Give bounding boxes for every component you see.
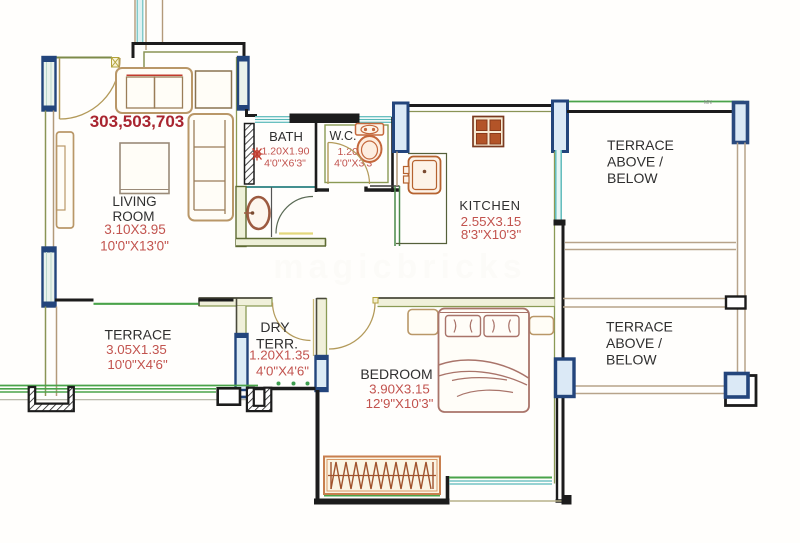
- svg-text:TERRACE: TERRACE: [607, 137, 674, 153]
- footing column south hatched: [247, 388, 271, 411]
- column terrace southeast blue: [726, 374, 749, 398]
- svg-text:LIVING: LIVING: [112, 194, 156, 209]
- text kitchen dims: [461, 214, 522, 242]
- svg-text:303,503,703: 303,503,703: [90, 112, 185, 131]
- pillow east: [484, 316, 519, 337]
- svg-text:magicbricks: magicbricks: [273, 248, 526, 286]
- duct shaft top: [135, 0, 163, 50]
- svg-text:3.05X1.35: 3.05X1.35: [106, 342, 167, 357]
- terrace edge green lines: [0, 386, 258, 393]
- window bedroom south band: [449, 478, 552, 485]
- door threshold bath: [279, 232, 313, 234]
- text living dims: [100, 222, 169, 254]
- plinth line gray: [0, 399, 250, 401]
- svg-text:3.90X3.15: 3.90X3.15: [369, 382, 430, 397]
- door jamb line dry terrace: [313, 299, 315, 356]
- centre table: [120, 143, 169, 194]
- wall kitchen east olive: [554, 152, 556, 484]
- svg-text:1.20X1.90: 1.20X1.90: [262, 146, 310, 158]
- sofa three seat horizontal: [116, 68, 192, 113]
- door jamb main entrance: [112, 58, 120, 68]
- text wc dims: [334, 146, 380, 170]
- text terrace lower: [606, 319, 673, 368]
- window kitchen east teal: [555, 150, 562, 220]
- partition basin line: [271, 187, 273, 237]
- kitchen counter edge: [396, 154, 447, 244]
- wall living east lower band: [236, 187, 246, 247]
- wall bedroom west lower: [316, 390, 320, 503]
- wall corner kitchen southeast: [554, 220, 566, 226]
- wall wc east: [391, 117, 394, 192]
- wall kitchen west green double: [370, 186, 400, 246]
- wall dry terrace east band: [316, 298, 327, 356]
- svg-text:10'0"X4'6": 10'0"X4'6": [107, 357, 168, 372]
- svg-text:1.20X1.35: 1.20X1.35: [249, 348, 310, 363]
- column kitchen north east: [553, 101, 568, 152]
- wall top black (living room north): [133, 44, 244, 59]
- column lines east vertical: [738, 143, 746, 375]
- svg-text:ABOVE /: ABOVE /: [606, 335, 662, 351]
- text bath dims: [262, 146, 310, 170]
- nightstand west: [408, 310, 438, 335]
- wall terrace north black east: [199, 299, 234, 302]
- svg-text:4'0"X6'3": 4'0"X6'3": [264, 158, 306, 170]
- kitchen stove platform: [473, 117, 504, 147]
- terrace upper floor edge double: [565, 243, 736, 250]
- door arc wc: [328, 143, 370, 185]
- wall kitchen west below column: [396, 152, 398, 187]
- blanket fold lines: [439, 360, 529, 396]
- svg-text:12'9"X10'3": 12'9"X10'3": [366, 396, 434, 411]
- svg-text:TERRACE: TERRACE: [105, 327, 172, 343]
- roof green line terrace north: [554, 101, 744, 103]
- svg-text:BATH: BATH: [269, 129, 303, 144]
- wall terrace dry divider band: [236, 298, 247, 334]
- svg-text:MN: MN: [704, 100, 712, 106]
- footing box south middle: [218, 388, 240, 404]
- door arc bath: [276, 197, 313, 234]
- text terrace dims: [106, 342, 168, 372]
- svg-text:3.10X3.95: 3.10X3.95: [104, 222, 166, 237]
- wall bath west hatched: [245, 124, 255, 185]
- wall bath wc north with windows: [247, 109, 392, 123]
- wall bath wc divider: [315, 116, 318, 192]
- column terrace northeast: [734, 103, 748, 143]
- toilet wc: [356, 124, 384, 163]
- svg-text:ABOVE /: ABOVE /: [607, 154, 663, 170]
- beam middle double: [563, 299, 745, 308]
- wall bedroom north band: [378, 298, 555, 307]
- tv cabinet west wall: [57, 132, 74, 228]
- terrace lower floor edge double: [574, 386, 726, 394]
- kitchen sink: [404, 157, 441, 194]
- text DRY TERR: [256, 319, 298, 352]
- svg-text:BELOW: BELOW: [607, 170, 658, 186]
- wall inner olive line north: [144, 52, 238, 70]
- window west wall lower: [43, 248, 56, 307]
- svg-text:BELOW: BELOW: [606, 352, 657, 368]
- window terrace north green: [94, 303, 199, 305]
- pier block south: [562, 495, 572, 505]
- wall terrace upper north black: [567, 110, 734, 113]
- svg-text:4'0"X4'6": 4'0"X4'6": [256, 364, 309, 379]
- wall dry terrace south: [248, 387, 316, 390]
- window living east: [238, 57, 249, 110]
- footing column southwest hatched: [29, 387, 74, 411]
- wall bedroom south black: [314, 499, 450, 505]
- wall bath south teal line: [246, 186, 316, 188]
- nightstand east: [530, 317, 554, 335]
- text dry terrace dims: [249, 348, 310, 379]
- window dry terrace east: [316, 356, 328, 391]
- window terrace dry divider: [236, 334, 248, 397]
- sofa vertical with chaise: [189, 114, 234, 221]
- wash basin: [244, 197, 270, 229]
- wall passage south band dry terrace: [199, 298, 273, 306]
- bed: [439, 309, 530, 413]
- door hinge bedroom: [373, 298, 378, 304]
- ledge line south: [450, 500, 562, 502]
- wall west mid double line: [46, 111, 54, 249]
- wall kitchen north: [393, 106, 553, 112]
- svg-text:8'3"X10'3": 8'3"X10'3": [461, 227, 522, 242]
- svg-text:10'0"X13'0": 10'0"X13'0": [100, 239, 169, 254]
- door arc dry terrace: [273, 303, 311, 341]
- svg-text:W.C.: W.C.: [329, 129, 356, 143]
- wall bedroom south step: [446, 476, 450, 503]
- side table square: [196, 71, 232, 108]
- pillow west: [446, 316, 481, 337]
- wall wc inner olive border: [325, 125, 388, 183]
- column terrace southeast black: [726, 376, 757, 406]
- door leaf wc: [327, 143, 329, 185]
- column kitchen north west: [394, 103, 409, 152]
- wall terrace west tan lines: [46, 307, 57, 397]
- wall wc south segments: [316, 187, 400, 191]
- wall living top olive segment: [55, 57, 112, 59]
- wall terrace north black west: [55, 299, 94, 302]
- wardrobe: [324, 457, 440, 496]
- wall bath south band: [236, 239, 326, 247]
- svg-text:TERRACE: TERRACE: [606, 319, 673, 335]
- wall living east olive: [236, 57, 238, 240]
- drain dots dry terrace: [277, 382, 310, 386]
- svg-text:DRY: DRY: [260, 319, 290, 335]
- text terrace upper: [607, 137, 674, 186]
- svg-text:BEDROOM: BEDROOM: [360, 366, 432, 382]
- door arc main entrance: [60, 58, 121, 119]
- column bedroom east: [556, 359, 575, 397]
- text bedroom dims: [366, 382, 434, 412]
- wall kitchen east black: [562, 225, 565, 502]
- svg-text:KITCHEN: KITCHEN: [459, 198, 520, 213]
- shower symbol: [252, 148, 263, 161]
- door leaf main entrance: [59, 58, 61, 119]
- door arc bedroom: [329, 303, 375, 349]
- text LIVING ROOM: [112, 194, 156, 224]
- window west wall upper: [43, 57, 56, 111]
- beam end block: [726, 297, 746, 309]
